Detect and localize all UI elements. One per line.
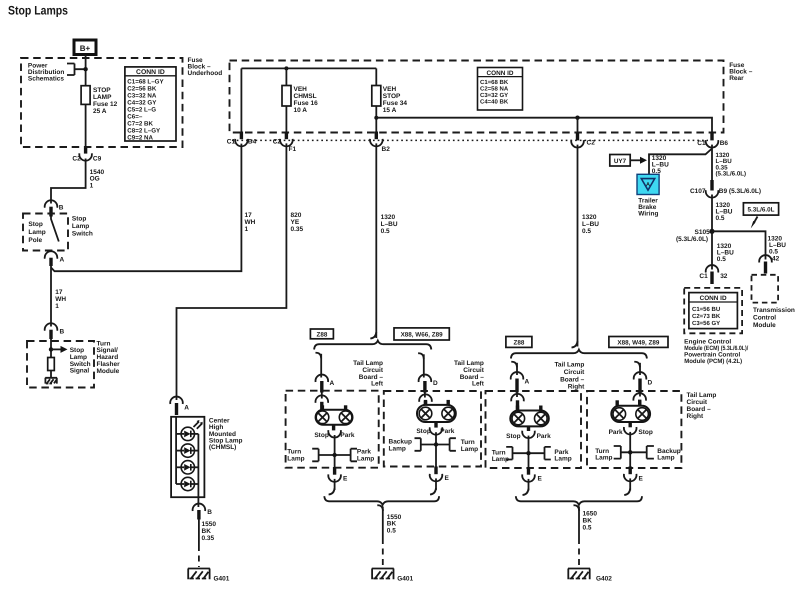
fuse block underhood dashed box [21,58,183,147]
svg-text:Signal: Signal [70,368,90,375]
in-board connector board 3 [511,393,524,412]
svg-text:X88, W66, Z89: X88, W66, Z89 [401,332,443,339]
svg-text:Module: Module [753,322,776,329]
label Fuse Block - Rear [729,62,753,82]
CHMSL lamp 4 [176,477,198,490]
turn signal hazard flasher module dashed box [27,341,94,388]
turn park lamp taps board 1 [287,449,374,463]
connector E board 1 [328,467,348,483]
svg-text:CONN ID: CONN ID [700,295,727,302]
wire label 1320 L-BU 0.5 TCM [768,235,787,255]
label Tail Lamp Circuit Board - Right 2 [687,392,717,420]
svg-text:32: 32 [720,273,728,280]
svg-text:Fuse 16: Fuse 16 [294,100,319,107]
connector E board 2 [430,467,450,483]
connector D board 4 [634,372,653,392]
resistor in flasher [48,358,55,371]
wire B+ down to fuse 12 [85,55,87,86]
connector C2 | C9 [72,148,101,163]
svg-text:Tail Lamp: Tail Lamp [687,392,717,399]
branch wire A left board 1 [316,353,322,378]
svg-text:A: A [646,182,650,188]
svg-text:C1: C1 [699,273,708,280]
wire F1 down and jog to CHMSL [177,143,287,400]
label Fuse Block - Underhood [188,57,223,77]
svg-text:C8=2 L–GY: C8=2 L–GY [127,127,161,134]
brace right tail lamps [511,350,647,359]
connector Stop Park board 3 [506,431,551,440]
svg-text:Lamp: Lamp [389,446,406,453]
label Tail Lamp Circuit Board - Right 1 [554,362,585,391]
wire hook into left brace [370,332,376,339]
wire hook into right brace [572,341,578,348]
bracket to power distribution [67,64,86,76]
svg-text:C1: C1 [227,139,236,146]
svg-text:VEH: VEH [294,86,308,93]
svg-text:Left: Left [472,381,485,388]
wire B2 down to left brace [375,143,377,338]
svg-text:F1: F1 [289,146,297,153]
svg-text:Stop: Stop [72,215,86,222]
wire fuse 34 output to B6 [376,118,712,133]
bulb board 3 dual filament [510,406,549,432]
svg-text:Lamp: Lamp [492,456,509,463]
svg-text:Underhood: Underhood [188,70,223,77]
svg-text:Rear: Rear [729,75,744,82]
switch blade [51,217,59,242]
bottom brace left section [324,496,439,505]
junction dot fuse 34 output [374,116,378,120]
wire E1 to bottom brace [329,479,335,495]
svg-text:E: E [538,476,543,483]
svg-text:VEH: VEH [383,86,397,93]
brace left tail lamps [314,341,431,350]
junction dot C2 tap [575,116,579,120]
svg-text:A: A [525,379,530,386]
svg-text:Board –: Board – [687,406,712,413]
svg-text:C9=2 NA: C9=2 NA [127,134,153,141]
svg-text:0.5: 0.5 [717,256,726,263]
svg-text:10 A: 10 A [294,107,308,114]
ground G401 tail lamps [372,569,414,583]
wire bus to B4 [240,68,242,132]
arrow 5.3L/6.0L to wire [751,217,758,229]
fuse VEH STOP Fuse 34 15A [372,86,381,107]
trailer brake wiring highlight box [637,174,659,194]
transmission control module dashed box [752,275,779,303]
option box Z88 left [310,329,333,339]
turn park lamp taps board 3 [492,447,572,463]
connector B stop lamp switch [45,200,64,216]
tail lamp circuit board left 2 dashed box [384,391,481,467]
wire C2 tap down [577,118,579,134]
wire to ground G402 [578,507,580,568]
svg-text:(CHMSL): (CHMSL) [209,444,236,451]
svg-text:B9 (5.3L/6.0L): B9 (5.3L/6.0L) [719,188,761,195]
CHMSL internal right bus [197,434,199,497]
svg-text:0.5: 0.5 [582,228,591,235]
svg-text:CONN ID: CONN ID [136,69,165,76]
wire 17 WH branch to fuse block rear B4 [51,144,241,272]
connector B2 [370,132,390,153]
svg-text:Wiring: Wiring [638,211,658,218]
svg-text:1: 1 [245,226,249,233]
svg-text:Park: Park [340,432,354,439]
label Trailer Brake Wiring [638,197,658,217]
connector A stop lamp switch [45,251,65,266]
hook below left brace [377,505,383,511]
option box X88 W66 Z89 left [394,328,449,340]
svg-text:STOP: STOP [383,93,401,100]
svg-text:25 A: 25 A [93,108,107,115]
wire S105 to ECM [711,231,713,269]
svg-text:Transmission: Transmission [753,307,795,314]
wire label 1320 L-BU 0.5 under B2 [381,214,398,235]
tail lamp circuit board left 1 dashed box [286,391,379,468]
dotted in-line connector row [232,139,708,141]
svg-text:Right: Right [687,413,704,420]
svg-text:X88, W49, Z89: X88, W49, Z89 [617,340,659,347]
svg-text:5.3L/6.0L: 5.3L/6.0L [748,207,775,214]
conn id table underhood [125,67,176,141]
svg-text:C3=56 GY: C3=56 GY [692,320,720,327]
turn backup lamp taps board 4 [595,446,681,462]
connector C1 | 32 ECM [699,265,727,284]
svg-text:1: 1 [55,303,59,310]
wire bulb 3 down [528,436,530,468]
wire into flasher [50,339,52,358]
svg-text:Board –: Board – [560,376,585,383]
arrow UY7 to wire [630,157,647,164]
svg-text:B: B [207,509,212,516]
branch wire D right board 4 [634,362,640,375]
wire E2 to bottom brace [430,478,436,494]
wire bulb 4 down [629,432,631,467]
svg-text:A: A [330,380,335,387]
svg-text:CONN ID: CONN ID [487,70,514,77]
svg-text:42: 42 [772,256,780,263]
wire label 1550 BK 0.35 [202,521,217,542]
wire S105 branch to TCM [712,231,766,259]
svg-text:0.35: 0.35 [291,226,304,233]
svg-text:0.5: 0.5 [583,524,592,531]
svg-text:Stop: Stop [638,429,652,436]
svg-text:WH: WH [245,219,256,226]
power distribution schematics reference [28,63,65,83]
wire label 17 WH 1 [55,289,66,310]
in-board connector board 4 [633,393,646,407]
svg-text:G401: G401 [397,576,413,583]
svg-text:Lamp: Lamp [28,229,45,236]
svg-text:C3=32 NA: C3=32 NA [127,92,157,99]
wire label 1650 BK 0.5 [583,511,598,532]
svg-text:YE: YE [291,219,300,226]
ground G401 CHMSL [188,569,230,583]
wire to ground G401 [382,507,384,568]
svg-text:0.35: 0.35 [202,535,215,542]
wire label 1320 L-BU 0.35 (5.3L/6.0L) [716,152,747,178]
wire resistor to ground [50,371,52,378]
svg-text:Left: Left [371,381,384,388]
svg-text:C1=56 BU: C1=56 BU [692,306,720,313]
connector E board 3 [522,467,542,483]
svg-text:Lamp: Lamp [554,456,571,463]
svg-text:Lamp: Lamp [72,223,89,230]
wire branch to trailer brake [649,149,712,175]
svg-text:(5.3L/6.0L): (5.3L/6.0L) [676,236,708,243]
engine control module dashed box [684,288,742,333]
svg-text:C2=73 BK: C2=73 BK [692,313,721,320]
stop lamp switch dashed box [23,214,68,251]
svg-text:A: A [60,257,65,264]
svg-text:Fuse 12: Fuse 12 [93,101,118,108]
svg-text:UY7: UY7 [614,158,627,165]
svg-text:CHMSL: CHMSL [294,93,317,100]
svg-text:Circuit: Circuit [687,399,708,406]
ground G402 [568,569,612,583]
conn id table rear [478,68,523,111]
svg-text:C1=68 BK: C1=68 BK [480,79,509,86]
label Tail Lamp Circuit Board - Left 2 [454,360,485,388]
bus wire in fuse block rear [241,67,376,69]
svg-text:Lamp: Lamp [357,455,374,462]
svg-text:E: E [445,475,450,482]
wire B6 down [711,145,713,181]
svg-text:Circuit: Circuit [564,369,585,376]
svg-text:Park: Park [609,429,623,436]
svg-text:C7=2 BK: C7=2 BK [127,120,153,127]
wire fuse 34 down to B2 [375,106,377,133]
connector 42 TCM [759,255,779,273]
junction dot at B+ wire [83,67,87,71]
svg-text:Stop: Stop [416,428,430,435]
bottom brace right section [516,496,642,505]
connector D board 2 [419,375,438,393]
bulb board 2 dual filament [417,400,456,428]
label Tail Lamp Circuit Board - Left 1 [353,360,384,388]
wire label 1320 L-BU 0.5 above S105 [716,202,733,222]
svg-text:C4=32 GY: C4=32 GY [127,99,157,106]
svg-text:Park: Park [440,428,454,435]
svg-text:C2: C2 [587,140,596,147]
svg-text:D: D [433,380,438,387]
svg-text:B+: B+ [80,44,91,53]
option box UY7 [610,155,630,167]
svg-text:L–BU: L–BU [381,221,398,228]
svg-text:Stop: Stop [28,221,42,228]
svg-text:C1: C1 [697,140,706,147]
junction dot flasher [49,347,53,351]
wire C107 to S105 [711,195,713,232]
svg-text:Lamp: Lamp [595,455,612,462]
connector A board 1 [316,375,335,393]
wire fuse 12 down to C2 [85,104,87,149]
CHMSL internal left bus [175,417,177,484]
svg-text:B2: B2 [382,146,391,153]
label Turn Signal Hazard Flasher Module [97,340,121,375]
svg-text:Stop: Stop [506,433,520,440]
svg-text:0.5: 0.5 [769,249,778,256]
arrow Stop Lamp Switch Signal [51,346,91,375]
svg-text:E: E [639,476,644,483]
fuse VEH CHMSL Fuse 16 10A [282,86,291,107]
svg-text:0.5: 0.5 [381,228,390,235]
svg-text:C9: C9 [93,156,102,163]
backup turn lamp taps board 2 [389,438,479,453]
svg-text:Module: Module [97,368,120,375]
connector A board 3 [511,372,530,392]
connector C1 | B4 [227,132,257,147]
wire bus to fuse 34 [375,68,377,85]
CHMSL light arrows [194,422,203,429]
branch wire A right board 3 [511,362,517,375]
svg-text:B6: B6 [720,140,729,147]
svg-text:Schematics: Schematics [28,75,65,82]
svg-text:Lamp: Lamp [287,455,304,462]
svg-text:B: B [60,329,65,336]
wire E4 to bottom brace [624,478,630,495]
wire label 1540 OG 1 [90,169,105,189]
option box Z88 right [506,337,532,348]
fuse STOP LAMP Fuse 12 25A [81,86,90,105]
svg-text:Module (PCM) (4.2L): Module (PCM) (4.2L) [684,358,742,365]
connector Park Stop board 4 [609,427,653,436]
label Center High Mounted Stop Lamp CHMSL [209,417,243,451]
svg-text:Tail Lamp: Tail Lamp [554,362,584,369]
wire fuse 16 to F1 [285,106,287,133]
wire C2 down to right brace [577,145,579,347]
svg-text:17: 17 [245,212,253,219]
wire B to ground G401 [198,519,200,545]
svg-text:Park: Park [537,433,551,440]
svg-text:15 A: 15 A [383,107,397,114]
wire 1540 jog to switch [51,159,86,204]
wire A down to flasher [50,265,52,327]
connector B flasher module [45,323,65,339]
svg-text:E: E [343,476,348,483]
svg-text:C2=58 NA: C2=58 NA [480,85,509,92]
svg-text:Control: Control [753,315,776,322]
battery B+ terminal [74,40,96,55]
svg-text:C4=40 BK: C4=40 BK [480,99,509,106]
bulb board 4 dual filament [611,400,650,427]
svg-text:Pole: Pole [28,237,42,244]
svg-text:0.5: 0.5 [716,215,725,222]
connector B CHMSL [193,497,213,519]
svg-text:C2: C2 [273,139,282,146]
svg-text:Switch: Switch [72,230,93,237]
wire E3 to bottom brace [523,479,529,495]
branch wire D left board 2 [418,353,424,377]
svg-text:Z88: Z88 [513,340,524,347]
in-board connector board 1 [316,393,329,411]
wire bulb 1 down [334,435,336,468]
svg-text:C5=2 L–G: C5=2 L–G [127,106,156,113]
svg-text:Stop: Stop [314,432,328,439]
connector C107 | B9 [690,180,761,198]
svg-text:Fuse 34: Fuse 34 [383,100,408,107]
connector C1 | B6 [697,132,728,148]
fuse block rear dashed box [230,61,724,133]
option box X88 W49 Z89 right [609,337,668,348]
tail lamp circuit board right 1 dashed box [486,391,582,468]
option box 5.3L/6.0L [743,203,778,215]
connector Stop Park board 2 [416,427,454,435]
junction dot bus [284,66,288,70]
svg-text:1: 1 [90,182,94,189]
svg-text:G401: G401 [214,576,230,583]
label Stop Lamp Pole [28,221,45,244]
svg-text:1320: 1320 [381,214,396,221]
svg-text:B: B [59,205,64,212]
svg-text:Lamp: Lamp [461,446,478,453]
svg-text:Stop Lamps: Stop Lamps [8,4,68,18]
hook below right brace [574,505,580,511]
connector C2 rear [571,133,595,148]
wire label 1320 L-BU 0.5 under C2 [582,214,599,235]
svg-text:1320: 1320 [582,214,597,221]
CHMSL lamp 2 [176,444,198,457]
svg-text:LAMP: LAMP [93,94,112,101]
wire label 17 WH 1 right [245,212,256,233]
ground flasher internal [45,378,57,384]
svg-text:C107: C107 [690,188,706,195]
svg-text:Right: Right [568,384,585,391]
tail lamp circuit board right 2 dashed box [587,391,681,468]
connector C2 | F1 [273,132,297,153]
label Stop Lamp Switch [72,215,93,237]
svg-text:Z88: Z88 [316,331,327,338]
bulb board 1 dual filament [316,405,353,430]
wire label 1320 L-BU 0.5 trailer [652,155,669,175]
CHMSL lamp 1 [176,427,198,440]
wire label 1320 L-BU 0.5 ECM [717,243,734,263]
wire label 1550 BK 0.5 [387,514,402,534]
CHMSL housing box [171,417,204,497]
svg-text:C2: C2 [72,156,81,163]
svg-text:L–BU: L–BU [582,221,599,228]
CHMSL lamp 3 [176,461,198,474]
svg-text:(5.3L/6.0L): (5.3L/6.0L) [716,171,747,178]
connector Stop Park board 1 [314,430,355,439]
in-board connector board 2 [419,393,432,406]
svg-text:0.5: 0.5 [387,527,396,534]
connector E board 4 [624,467,644,483]
svg-text:820: 820 [291,212,302,219]
svg-text:C1=68 L–GY: C1=68 L–GY [127,78,164,85]
svg-text:Lamp: Lamp [657,455,674,462]
wire bus to fuse 16 [285,68,287,85]
svg-text:C3=32 GY: C3=32 GY [480,92,508,99]
svg-text:D: D [648,380,653,387]
connector A CHMSL [170,397,189,415]
conn id table ECM [689,293,738,329]
splice S105 [676,229,715,243]
label Engine Control Module ECM PCM [684,338,748,365]
svg-text:G402: G402 [596,576,612,583]
svg-text:A: A [184,405,189,412]
svg-text:C6=–: C6=– [127,113,143,120]
svg-text:STOP: STOP [93,87,111,94]
label Transmission Control Module [753,307,795,329]
svg-text:C2=56 BK: C2=56 BK [127,85,157,92]
wire label 820 YE 0.35 [291,212,304,233]
wire bulb 2 down [435,432,437,467]
